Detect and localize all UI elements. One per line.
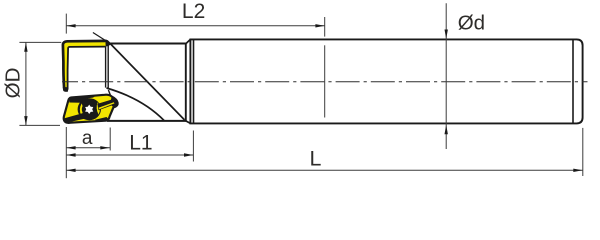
pocket seat diagonal: [108, 90, 111, 98]
shank body: [190, 39, 582, 123]
head bottom edge: [107, 120, 186, 122]
L left arrow: [66, 169, 75, 172]
upper insert tip line (beak): [93, 33, 111, 44]
screw head disc: [82, 102, 97, 116]
L2 left arrow: [66, 24, 75, 27]
a right arrow: [100, 146, 109, 149]
ext line left (x=66.3) top for L2: [65, 14, 67, 34]
L1 left arrow: [66, 153, 75, 156]
black tip cap: [105, 40, 111, 47]
outer edge stroke: [63, 41, 107, 90]
OD bottom arrow: [24, 116, 27, 125]
svg-text:ØD: ØD: [1, 68, 24, 99]
arrowheads: [24, 24, 582, 172]
yellow streak in right band: [99, 102, 115, 109]
ext for a (x=110.2): [109, 128, 111, 151]
inner edge stroke: [68, 47, 106, 90]
OD dim line: [25, 42, 27, 125]
shank chamfer ring: [193, 39, 195, 123]
svg-text:Ød: Ød: [458, 12, 485, 35]
wedge right band: [97, 99, 117, 110]
OD top arrow: [24, 42, 27, 51]
wedge top-left: [69, 95, 96, 103]
neck chamfer top: [186, 39, 191, 43]
shank end chamfer line: [572, 39, 574, 123]
DIMENSIONS: [19, 3, 582, 178]
ext for L right (x=582.8): [582, 128, 584, 176]
torx star: [85, 105, 93, 114]
yellow crescent left: [80, 103, 83, 116]
L2 dashed ext right: [324, 17, 326, 37]
flute curve: [107, 88, 165, 121]
L right arrow: [573, 169, 582, 172]
wedge bottom-left: [64, 113, 89, 123]
svg-text:a: a: [82, 128, 93, 149]
L1 dim line: [66, 154, 193, 156]
a dim line: [66, 147, 110, 149]
L dim line: [66, 169, 582, 171]
top insert (edge view, yellow band): [62, 40, 111, 92]
svg-text:L2: L2: [182, 0, 205, 23]
Od pointer line: [445, 3, 447, 149]
insert pocket wall (double line): [105, 44, 107, 87]
head right face: [185, 44, 187, 121]
L2 dim line: [66, 25, 324, 27]
OD tick top: [19, 41, 61, 43]
L1 right arrow: [184, 153, 193, 156]
Od bottom arrow (up): [445, 125, 448, 134]
flute diagonal: [111, 44, 185, 120]
bottom insert (3/4 view): [64, 95, 118, 123]
screw boss ring (black): [78, 98, 101, 120]
strip bottom cap: [63, 87, 68, 92]
svg-text:L: L: [310, 146, 322, 170]
ext for L1 (x=193.4): [192, 131, 194, 162]
ext line left bottom for a/L1/L: [65, 127, 67, 178]
wedge bottom-right sliver: [95, 117, 108, 121]
Od top arrow (down): [445, 30, 448, 39]
svg-text:L1: L1: [129, 132, 152, 155]
L2 right arrow: [315, 24, 324, 27]
yellow crescent right: [97, 102, 100, 114]
centerline: [62, 81, 588, 83]
neck chamfer bottom: [186, 121, 191, 124]
a left arrow: [66, 146, 75, 149]
head top edge: [110, 43, 186, 45]
lobe blob: [110, 98, 118, 108]
OD tick bottom: [19, 124, 60, 126]
